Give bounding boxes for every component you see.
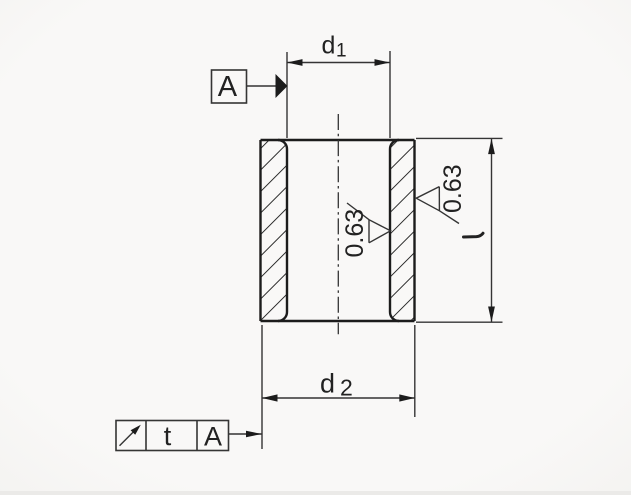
svg-text:d: d	[320, 369, 335, 399]
svg-text:A: A	[204, 421, 222, 451]
svg-text:t: t	[164, 421, 172, 451]
svg-text:A: A	[218, 71, 238, 103]
svg-text:d: d	[322, 32, 336, 60]
svg-text:0.63: 0.63	[439, 164, 467, 213]
svg-text:0.63: 0.63	[341, 209, 369, 258]
svg-text:2: 2	[340, 375, 353, 401]
svg-text:1: 1	[336, 41, 347, 62]
